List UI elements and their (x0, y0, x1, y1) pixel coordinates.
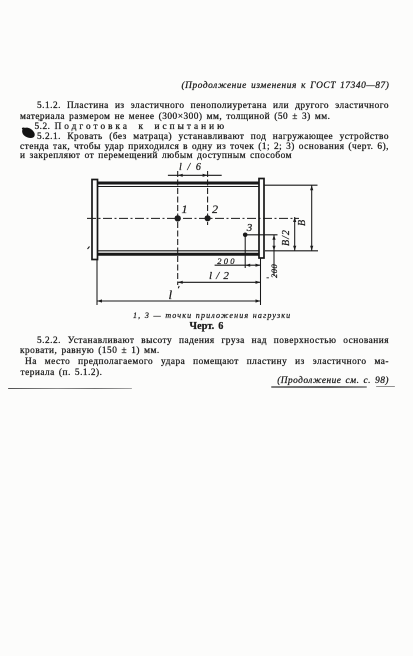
scan smudge left (8, 388, 132, 390)
label 200 vertical rotated (269, 264, 279, 278)
paragraph 5.1.2 line 1 (37, 101, 389, 111)
paragraph 5.2.1 line 3 (20, 151, 292, 161)
dimension line B (311, 185, 313, 251)
figure number (190, 322, 224, 332)
center axis dash-dot line (87, 217, 299, 219)
paragraph 5.2.2 line 3 (25, 357, 389, 367)
paragraph 5.2.2 line 1 (37, 336, 389, 346)
bed top edge thin (98, 186, 260, 188)
label l/2 (209, 271, 230, 281)
paragraph 5.2.1 line 1 (37, 132, 389, 142)
dimension line l/6 (168, 174, 222, 176)
label B rotated (298, 220, 308, 226)
bed left rail (92, 180, 98, 260)
heading 5.2 (35, 122, 228, 132)
paragraph 5.2.2 line 4 (21, 368, 103, 378)
left rail lower extension (96, 260, 98, 306)
stray mark above 5.2 (38, 119, 43, 122)
right rail lower extension (260, 258, 262, 305)
top extension line for B (264, 184, 318, 186)
dimension line 200 vertical (273, 235, 275, 276)
scan smudge right (271, 386, 367, 388)
paragraph 5.2.2 line 2 (20, 346, 160, 356)
figure caption (133, 311, 291, 321)
label point 1 (182, 204, 188, 214)
label B/2 rotated (282, 229, 292, 246)
footer continuation note (277, 376, 389, 386)
bed bottom edge thin (98, 250, 260, 252)
dimension 200 horizontal (215, 264, 261, 266)
dimension line B/2 (294, 217, 296, 251)
stray dash below vertical 200 label (267, 277, 269, 278)
bottom extension line for dims (265, 250, 318, 252)
paragraph 5.2.1 line 2 (20, 142, 389, 152)
point 3 (243, 233, 248, 238)
stray tick above l label (177, 286, 180, 288)
point 1 (175, 215, 181, 221)
dimension line l/2 (178, 281, 261, 283)
extension line through point 2 (207, 171, 209, 225)
point 2 (205, 215, 211, 221)
label 200 horizontal (217, 256, 236, 266)
dimension line l (97, 300, 261, 302)
bed top edge thick (98, 182, 260, 185)
header continuation note (181, 81, 389, 91)
point 3 vertical extension (244, 235, 246, 268)
extension line through point 1 (177, 171, 179, 285)
label l/6 (179, 163, 203, 173)
stray tick near left rail bottom (88, 247, 90, 250)
point 3 horizontal extension (245, 234, 277, 236)
bed right rail (259, 179, 264, 259)
label l (169, 290, 173, 300)
bed bottom edge thick (98, 253, 260, 256)
label point 2 (212, 204, 218, 214)
label point 3 (247, 223, 253, 233)
paragraph 5.1.2 line 2 (20, 112, 331, 122)
